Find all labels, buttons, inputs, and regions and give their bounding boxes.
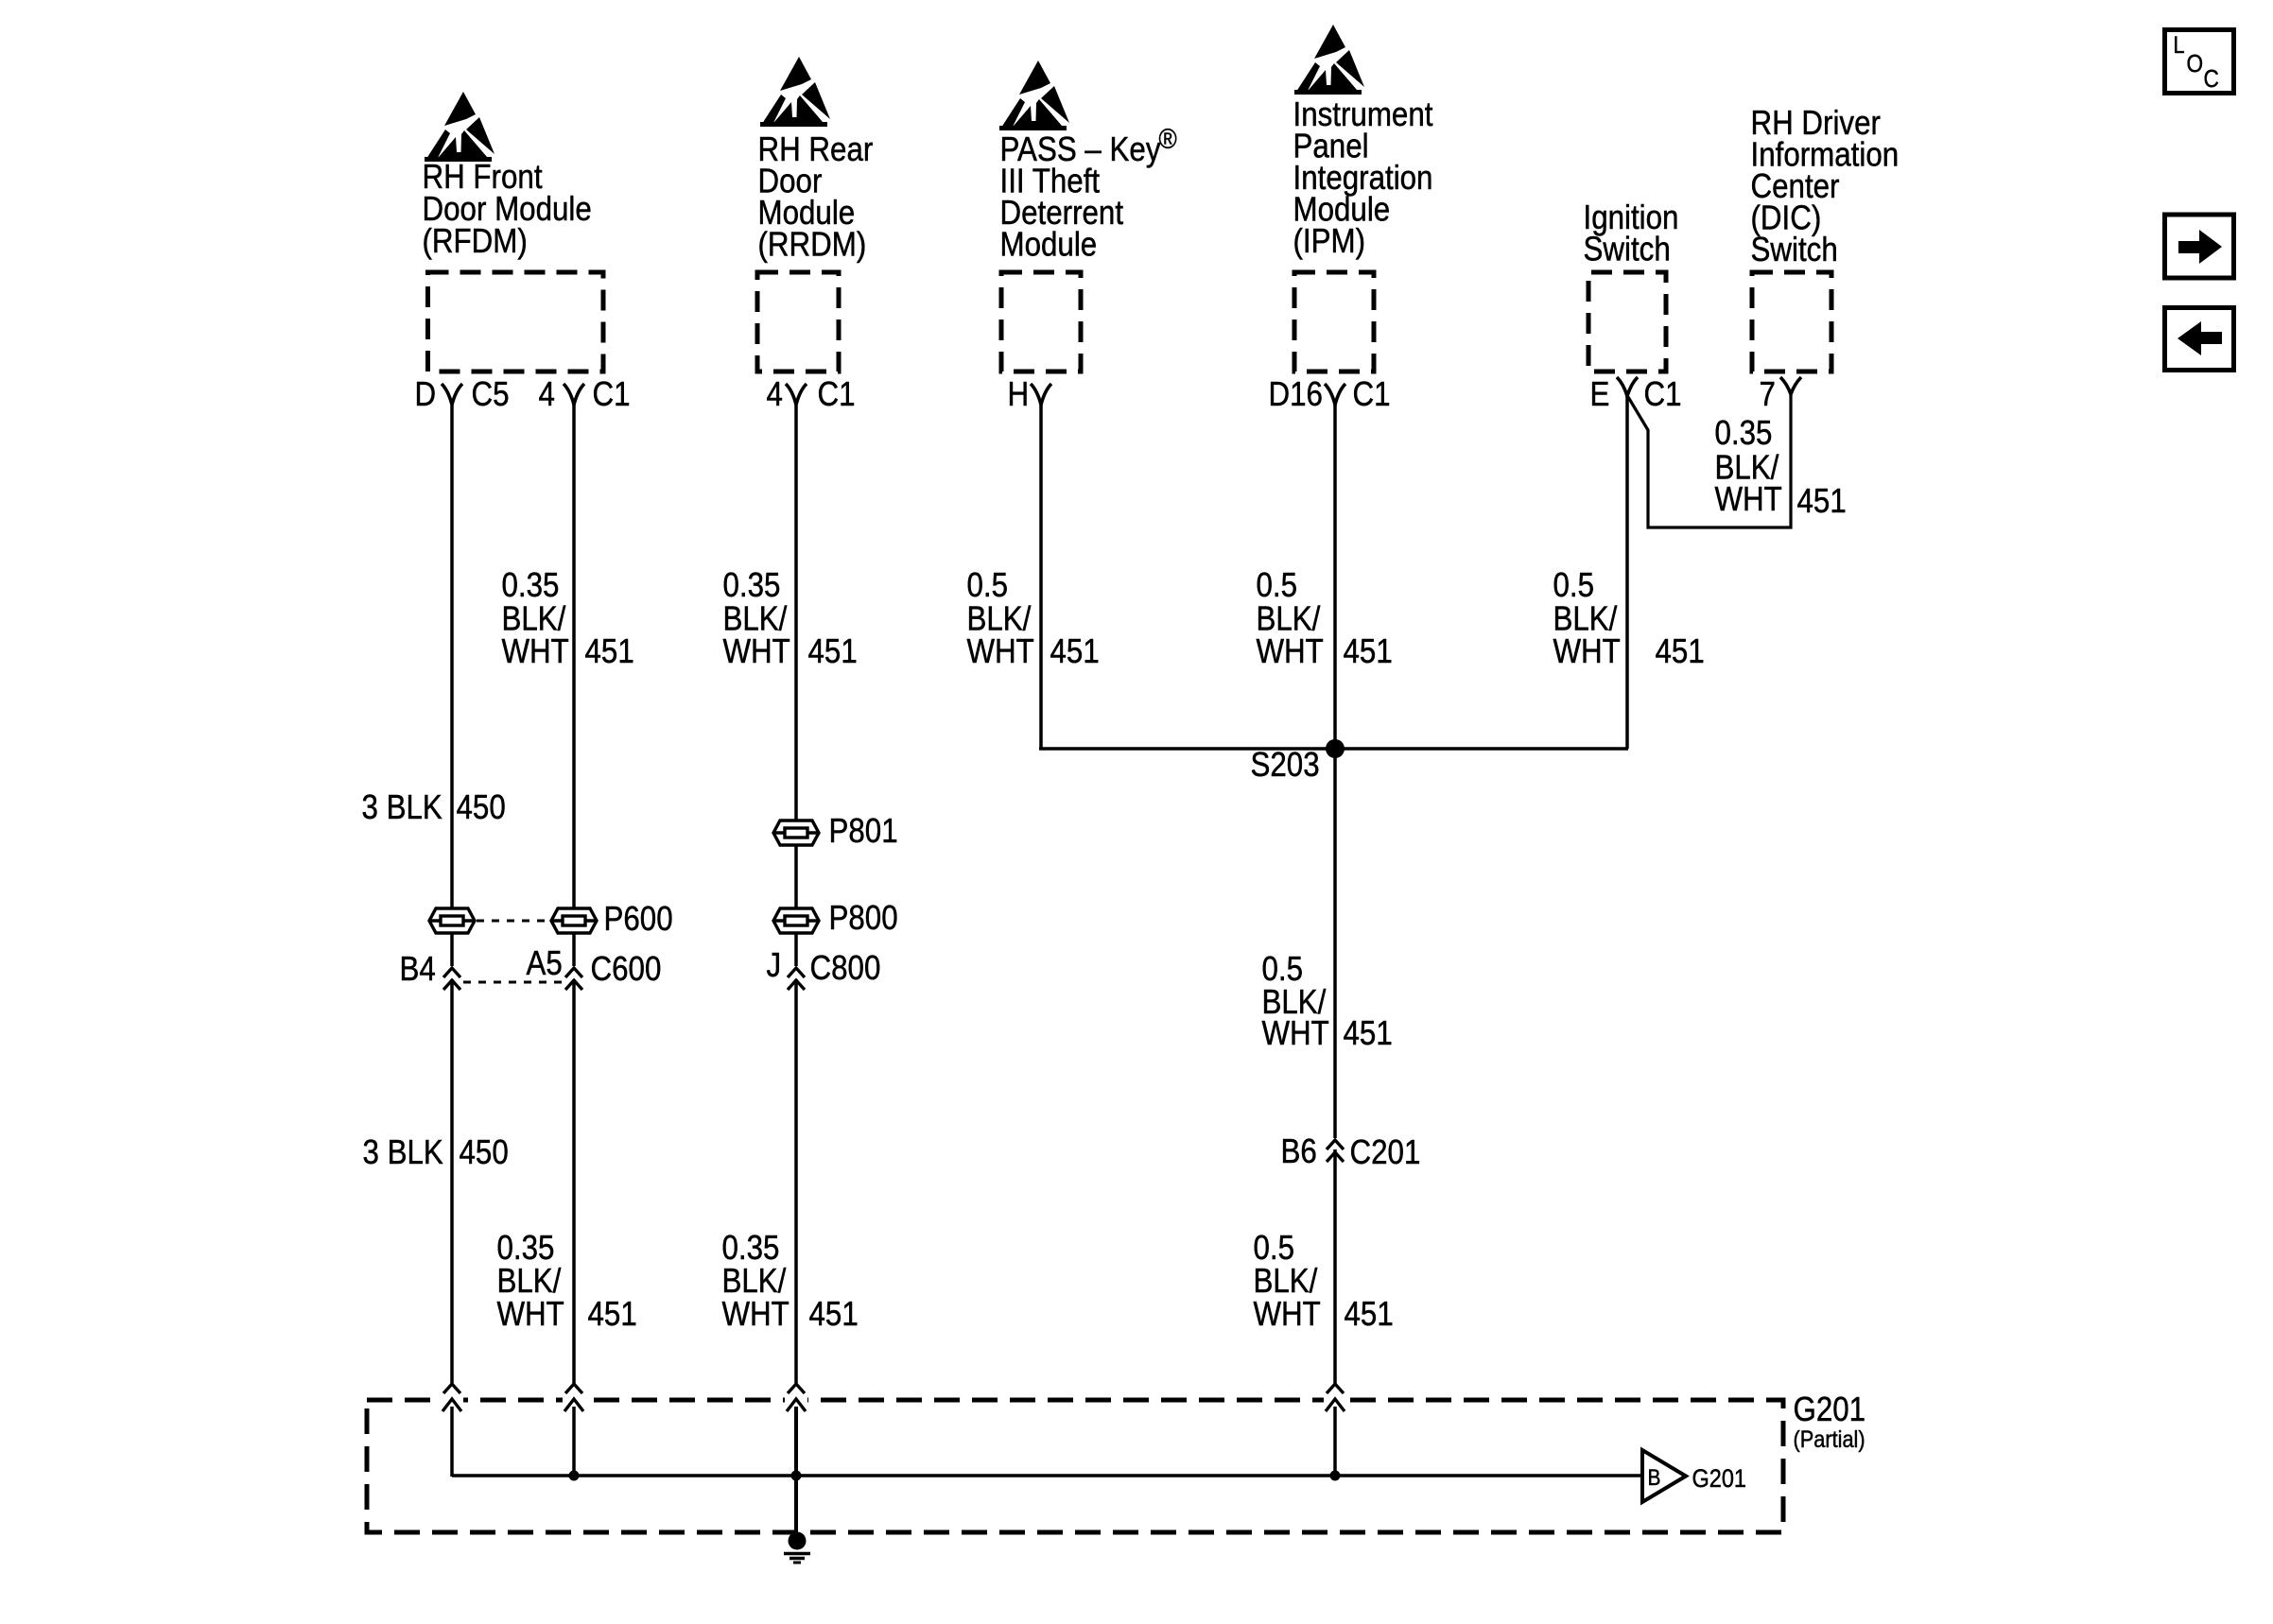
svg-text:J: J: [767, 946, 782, 985]
pin D16 C1 fork (IPM): [1325, 384, 1345, 405]
svg-text:C1: C1: [818, 375, 856, 414]
svg-text:D: D: [415, 375, 437, 414]
svg-text:L: L: [2174, 32, 2185, 59]
junction dot W3/bus: [791, 1471, 802, 1481]
LOC reference box: [2165, 30, 2234, 94]
pin E C1 fork (Ignition Switch): [1617, 377, 1638, 396]
svg-text:O: O: [2187, 51, 2204, 78]
grommet P600 on W2: [551, 908, 597, 933]
svg-text:451: 451: [808, 632, 858, 671]
connector C800 pin J on W3: [788, 968, 805, 977]
ground bus inside G201: [452, 1474, 1642, 1477]
svg-text:WHT: WHT: [502, 632, 569, 671]
svg-text:WHT: WHT: [1553, 632, 1621, 671]
wire W2 RFDM pin 4 to C600: [572, 405, 576, 966]
left arrow nav box: [2165, 308, 2234, 371]
module box DIC Switch: [1752, 272, 1831, 371]
svg-text:0.5: 0.5: [967, 566, 1009, 605]
svg-text:Module: Module: [1000, 225, 1098, 264]
svg-text:451: 451: [809, 1295, 859, 1334]
svg-text:0.5: 0.5: [1553, 566, 1595, 605]
wire W1 into G201 to ground bus: [450, 1399, 454, 1477]
svg-text:451: 451: [1656, 632, 1705, 671]
svg-text:WHT: WHT: [1254, 1295, 1321, 1334]
wire W3 C800 to G201: [794, 979, 798, 1384]
connector C600 pin B4 on W1: [443, 968, 460, 977]
dashed link B4-A5: [463, 981, 564, 984]
wire W2 into G201 to ground bus: [572, 1399, 576, 1476]
svg-text:(Partial): (Partial): [1794, 1426, 1865, 1453]
svg-text:G201: G201: [1794, 1391, 1866, 1429]
splice S203 junction dot: [1326, 739, 1345, 758]
svg-text:WHT: WHT: [497, 1295, 564, 1334]
module box IPM: [1294, 272, 1374, 371]
dashed link between P600 grommets: [477, 920, 548, 923]
svg-text:451: 451: [585, 632, 634, 671]
G201 entry chevrons W1: [443, 1384, 460, 1393]
junction dot W2/bus: [569, 1471, 580, 1481]
grommet P801 on W3: [773, 821, 819, 845]
grommet P800 on W3: [773, 908, 819, 933]
svg-text:451: 451: [1050, 632, 1100, 671]
pin 4 C1 fork (RFDM): [564, 384, 584, 405]
wire W3 into G201 through bus to ground: [794, 1399, 798, 1532]
module box Ignition Switch: [1588, 272, 1666, 371]
svg-text:4: 4: [539, 375, 555, 414]
svg-text:450: 450: [457, 788, 506, 827]
svg-text:0.35: 0.35: [723, 566, 781, 605]
pin H fork (PASS-Key module): [1031, 384, 1051, 405]
svg-text:S203: S203: [1251, 746, 1320, 785]
G201 entry chevrons W2: [565, 1384, 582, 1393]
svg-text:7: 7: [1760, 375, 1776, 414]
module box RFDM: [428, 272, 604, 371]
svg-text:WHT: WHT: [723, 632, 790, 671]
module box PASS-Key III: [1001, 272, 1081, 371]
svg-text:G201: G201: [1692, 1465, 1746, 1494]
wire W2 C600 to G201: [572, 979, 576, 1384]
pin 4 C1 fork (RRDM): [786, 384, 807, 405]
ESD warning symbol (RRDM): [760, 57, 830, 127]
wire W5 into G201 to ground bus: [1333, 1399, 1337, 1476]
ground symbol G201: [789, 1532, 807, 1550]
svg-text:WHT: WHT: [1715, 480, 1782, 519]
svg-text:P801: P801: [829, 812, 898, 851]
svg-text:C800: C800: [810, 949, 881, 988]
wire W5 C201 to G201: [1333, 1149, 1337, 1384]
ground box G201 (Partial): [367, 1400, 1783, 1532]
svg-text:D16: D16: [1269, 375, 1323, 414]
wire W5 IPM pin D16 through S203 to C201: [1333, 405, 1337, 1138]
svg-text:C1: C1: [1644, 375, 1682, 414]
svg-text:C201: C201: [1350, 1133, 1421, 1172]
ground terminal triangle B: [1642, 1450, 1686, 1502]
svg-text:B4: B4: [400, 950, 436, 989]
svg-text:WHT: WHT: [967, 632, 1034, 671]
grommet P600 on W1: [429, 908, 475, 933]
svg-text:0.35: 0.35: [1715, 414, 1773, 453]
svg-text:451: 451: [1345, 1295, 1394, 1334]
svg-text:®: ®: [1159, 123, 1177, 154]
svg-text:C5: C5: [472, 375, 510, 414]
svg-text:451: 451: [1344, 632, 1393, 671]
junction dot W5/bus: [1330, 1471, 1341, 1481]
svg-text:C: C: [2204, 66, 2219, 94]
wire W1 RFDM pin D to C600: [450, 405, 454, 966]
pin D C5 fork (RFDM): [442, 384, 462, 405]
wire W3 RRDM pin 4 to C800: [794, 405, 798, 966]
svg-text:WHT: WHT: [722, 1295, 789, 1334]
svg-text:0.35: 0.35: [502, 566, 560, 605]
wire W1 C600 to G201: [450, 979, 454, 1384]
svg-text:3 BLK: 3 BLK: [362, 788, 443, 827]
connector C201 pin B6 on W5: [1327, 1140, 1344, 1149]
wire W6 Ignition pin E down to splice bus: [1625, 396, 1629, 749]
svg-text:C600: C600: [591, 950, 662, 989]
svg-text:P800: P800: [829, 899, 898, 938]
svg-text:0.5: 0.5: [1257, 566, 1298, 605]
svg-text:451: 451: [1344, 1014, 1393, 1053]
svg-text:3 BLK: 3 BLK: [363, 1133, 444, 1172]
pin 7 fork (DIC Switch): [1780, 377, 1801, 394]
G201 entry chevrons W5: [1327, 1384, 1344, 1393]
module box RRDM: [757, 272, 839, 371]
svg-text:Switch: Switch: [1751, 231, 1838, 269]
svg-text:H: H: [1008, 375, 1030, 414]
ESD warning symbol (PASS-Key III module): [999, 60, 1069, 130]
wire W4 PASS-Key pin H down to splice bus: [1039, 405, 1043, 749]
svg-text:451: 451: [588, 1295, 637, 1334]
svg-text:A5: A5: [527, 944, 563, 983]
svg-text:C1: C1: [593, 375, 631, 414]
ESD warning symbol (RFDM): [425, 92, 495, 162]
G201 entry chevrons W3: [788, 1384, 805, 1393]
svg-text:4: 4: [767, 375, 783, 414]
svg-text:B: B: [1648, 1465, 1661, 1491]
wire DIC pin 7 jog to ignition pin E: [1628, 394, 1791, 527]
ESD warning symbol (IPM): [1294, 25, 1364, 95]
wire S203 splice bus: [1039, 747, 1628, 751]
svg-text:WHT: WHT: [1262, 1014, 1329, 1053]
svg-text:450: 450: [460, 1133, 509, 1172]
svg-text:E: E: [1590, 375, 1610, 414]
svg-text:Switch: Switch: [1584, 230, 1671, 268]
svg-text:P600: P600: [604, 900, 673, 939]
svg-text:451: 451: [1797, 482, 1847, 521]
right arrow nav box: [2165, 215, 2234, 278]
svg-text:B6: B6: [1281, 1132, 1317, 1171]
svg-text:(RRDM): (RRDM): [758, 225, 867, 264]
svg-text:(RFDM): (RFDM): [423, 222, 528, 261]
connector C600 pin A5 on W2: [565, 968, 582, 977]
svg-text:WHT: WHT: [1257, 632, 1324, 671]
svg-text:(IPM): (IPM): [1293, 222, 1366, 261]
svg-text:C1: C1: [1353, 375, 1391, 414]
